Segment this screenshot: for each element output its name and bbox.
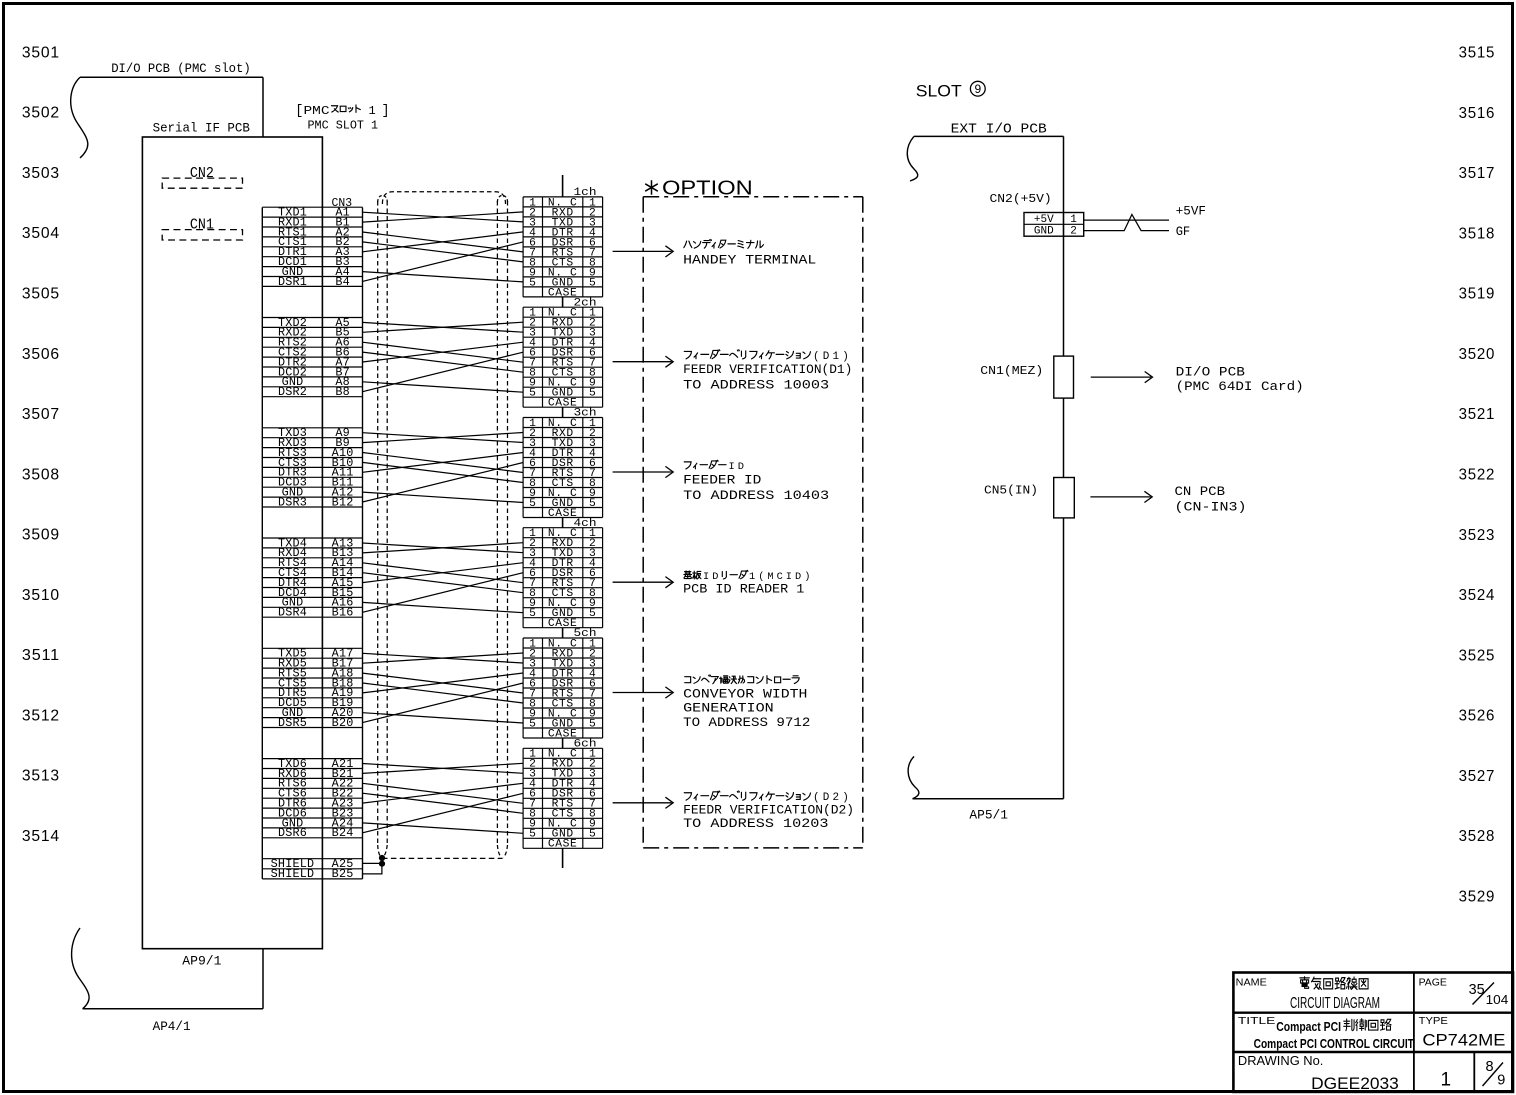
svg-text:DGEE2033: DGEE2033 bbox=[1311, 1074, 1399, 1093]
svg-text:9: 9 bbox=[974, 82, 981, 96]
svg-text:1: 1 bbox=[1070, 214, 1077, 226]
svg-text:DSR5: DSR5 bbox=[278, 716, 307, 730]
arrow 4ch to PCB ID READER 1 bbox=[613, 581, 672, 583]
DI/O PCB (PMC slot) board outline bbox=[71, 77, 263, 1009]
arrow 6ch to FEEDR VERIFICATION(D2) bbox=[613, 802, 672, 804]
svg-text:(PMC 64DI Card): (PMC 64DI Card) bbox=[1176, 380, 1304, 394]
svg-text:B24: B24 bbox=[332, 826, 354, 840]
svg-text:CN5(IN): CN5(IN) bbox=[984, 484, 1038, 498]
svg-text:104: 104 bbox=[1486, 992, 1509, 1007]
wire RXD2 to 2ch pin 2 bbox=[363, 322, 524, 332]
arrow 1ch to HANDEY TERMINAL bbox=[613, 250, 672, 252]
arrow 5ch to CONVEYOR WIDTH GENERATION bbox=[613, 692, 672, 694]
svg-text:3518: 3518 bbox=[1459, 225, 1496, 242]
svg-text:B16: B16 bbox=[332, 606, 354, 620]
svg-text:3525: 3525 bbox=[1459, 647, 1496, 664]
svg-text:3515: 3515 bbox=[1459, 45, 1496, 62]
cable shield junction dots bbox=[379, 855, 385, 861]
connector 4ch DSUB pin block bbox=[523, 528, 603, 630]
connector CN5(IN) box bbox=[1054, 478, 1075, 518]
svg-text:3503: 3503 bbox=[22, 165, 60, 182]
arrow 3ch to FEEDER ID bbox=[613, 471, 672, 473]
connector CN3 body (left pin table) bbox=[262, 207, 362, 879]
svg-text:CN PCB: CN PCB bbox=[1175, 485, 1226, 499]
wire GND to 4ch pin 5 bbox=[363, 602, 524, 612]
wire RXD3 to 3ch pin 2 bbox=[363, 433, 524, 443]
svg-text:EXT I/O PCB: EXT I/O PCB bbox=[951, 122, 1047, 137]
wire +5V to +5VF bbox=[1084, 219, 1169, 221]
connector 3ch DSUB pin block bbox=[523, 418, 603, 520]
wire DSR2 to 2ch pin 6 bbox=[363, 352, 524, 392]
svg-text:CN1(MEZ): CN1(MEZ) bbox=[980, 364, 1043, 378]
connector stub below 6ch bbox=[562, 848, 564, 868]
wire RTS3 to 3ch pin 7 bbox=[363, 453, 524, 473]
OPTION title with asterisk bbox=[645, 178, 753, 200]
label SLOT 9 (circled) bbox=[916, 81, 985, 100]
svg-text:3528: 3528 bbox=[1459, 828, 1496, 845]
wire DSR3 to 3ch pin 6 bbox=[363, 463, 524, 503]
wire CTS6 to 6ch pin 8 bbox=[363, 793, 524, 813]
svg-text:3520: 3520 bbox=[1459, 346, 1496, 363]
OPTION boundary box (chain line) bbox=[643, 197, 863, 848]
wire RTS1 to 1ch pin 7 bbox=[363, 232, 524, 252]
svg-text:GENERATION: GENERATION bbox=[683, 701, 774, 716]
svg-text:3505: 3505 bbox=[22, 286, 60, 303]
svg-text:OPTION: OPTION bbox=[662, 178, 753, 200]
connector CN1(MEZ) box bbox=[1054, 356, 1074, 398]
svg-text:3526: 3526 bbox=[1459, 708, 1496, 725]
wire CTS2 to 2ch pin 8 bbox=[363, 352, 524, 372]
label HANDEY TERMINAL (Japanese + English) bbox=[683, 239, 816, 267]
svg-text:3524: 3524 bbox=[1459, 587, 1496, 604]
svg-text:NAME: NAME bbox=[1236, 976, 1267, 988]
connector CN3 group 5 rows (pins A17-B20) bbox=[262, 647, 362, 730]
connector CN3 group 1 rows (pins A1-B4) bbox=[262, 206, 362, 289]
label FEEDER ID bbox=[683, 460, 829, 503]
wire RXD6 to 6ch pin 2 bbox=[363, 763, 524, 773]
svg-text:5: 5 bbox=[589, 608, 596, 620]
wire SHIELD B25 to shield bbox=[363, 864, 382, 874]
svg-text:TO ADDRESS 9712: TO ADDRESS 9712 bbox=[683, 715, 810, 730]
wire CTS5 to 5ch pin 8 bbox=[363, 683, 524, 703]
svg-text:3507: 3507 bbox=[22, 406, 60, 423]
arrow CN5 to CN PCB bbox=[1090, 496, 1150, 498]
svg-text:): ) bbox=[804, 571, 810, 583]
title block frame bbox=[1233, 973, 1513, 1093]
connector 2ch stub and label bbox=[562, 297, 564, 307]
svg-text:3506: 3506 bbox=[22, 346, 60, 363]
wire RTS5 to 5ch pin 7 bbox=[363, 673, 524, 693]
svg-text:5: 5 bbox=[529, 498, 536, 510]
svg-text:1: 1 bbox=[833, 351, 840, 363]
wire DTR3 to 3ch pin 4 bbox=[363, 453, 524, 473]
svg-text:Compact PCI: Compact PCI bbox=[1276, 1019, 1341, 1034]
svg-text:DSR3: DSR3 bbox=[278, 495, 307, 509]
title block sheet number cells bbox=[1441, 1059, 1506, 1090]
svg-text:1: 1 bbox=[369, 104, 376, 118]
svg-text:CP742ME: CP742ME bbox=[1422, 1031, 1505, 1050]
svg-text:I: I bbox=[728, 461, 734, 473]
connector CN3 group 6 rows (pins A21-B24) bbox=[262, 757, 362, 840]
svg-text:B4: B4 bbox=[335, 275, 350, 289]
EXT I/O PCB board outline bbox=[907, 136, 1063, 798]
svg-text:D: D bbox=[738, 461, 744, 473]
svg-text:DSR4: DSR4 bbox=[278, 606, 307, 620]
wire GND to 1ch pin 5 bbox=[363, 272, 524, 282]
wire CTS3 to 3ch pin 8 bbox=[363, 462, 524, 482]
connector CN1 (dashed) bbox=[162, 230, 242, 240]
svg-text:(: ( bbox=[813, 351, 820, 363]
wire shield junction vertical bbox=[381, 858, 383, 864]
connector 6ch DSUB pin block bbox=[523, 748, 603, 850]
connector 5ch DSUB pin block bbox=[523, 638, 603, 740]
wire DTR1 to 1ch pin 4 bbox=[363, 232, 524, 252]
svg-text:B12: B12 bbox=[332, 495, 354, 509]
svg-text:CIRCUIT DIAGRAM: CIRCUIT DIAGRAM bbox=[1290, 995, 1380, 1012]
svg-text:CN1: CN1 bbox=[190, 217, 214, 233]
svg-text:PAGE: PAGE bbox=[1419, 976, 1447, 988]
svg-text:3519: 3519 bbox=[1459, 286, 1496, 303]
svg-text:]: ] bbox=[382, 104, 390, 119]
label CONVEYOR WIDTH GENERATION bbox=[683, 675, 810, 730]
svg-text:3513: 3513 bbox=[22, 768, 60, 785]
svg-text:5: 5 bbox=[589, 388, 596, 400]
wire RXD4 to 4ch pin 2 bbox=[363, 543, 524, 553]
svg-text:SLOT: SLOT bbox=[916, 81, 962, 100]
svg-text:(CN-IN3): (CN-IN3) bbox=[1175, 501, 1247, 515]
svg-text:CONVEYOR WIDTH: CONVEYOR WIDTH bbox=[683, 687, 807, 702]
svg-text:TYPE: TYPE bbox=[1419, 1015, 1448, 1027]
svg-text:3511: 3511 bbox=[22, 647, 60, 664]
title block TITLE cell bbox=[1238, 1015, 1414, 1051]
svg-text:FEEDER ID: FEEDER ID bbox=[683, 473, 762, 488]
svg-text:AP5/1: AP5/1 bbox=[969, 809, 1008, 823]
wire RTS6 to 6ch pin 7 bbox=[363, 783, 524, 803]
svg-text:DI/O PCB: DI/O PCB bbox=[1176, 365, 1246, 379]
svg-text:3529: 3529 bbox=[1459, 888, 1496, 905]
svg-text:B25: B25 bbox=[332, 867, 354, 881]
svg-text:5: 5 bbox=[589, 277, 596, 289]
svg-text:3522: 3522 bbox=[1459, 467, 1496, 484]
connector CN3 group 4 rows (pins A13-B16) bbox=[262, 536, 362, 619]
svg-text:GF: GF bbox=[1176, 225, 1191, 239]
wire RXD5 to 5ch pin 2 bbox=[363, 653, 524, 663]
connector CN3 group 2 rows (pins A5-B8) bbox=[262, 316, 362, 399]
svg-text:GND: GND bbox=[1034, 226, 1054, 238]
connector 2ch DSUB pin block bbox=[523, 307, 603, 409]
wire DSR6 to 6ch pin 6 bbox=[363, 793, 524, 833]
wire RTS2 to 2ch pin 7 bbox=[363, 342, 524, 362]
wire CTS1 to 1ch pin 8 bbox=[363, 242, 524, 262]
connector 4ch stub and label bbox=[562, 518, 564, 528]
svg-text:TO ADDRESS 10403: TO ADDRESS 10403 bbox=[683, 488, 829, 503]
connector 3ch stub and label bbox=[562, 407, 564, 417]
svg-text:): ) bbox=[842, 351, 849, 363]
svg-text:5: 5 bbox=[529, 718, 536, 730]
svg-text:5: 5 bbox=[589, 718, 596, 730]
svg-text:AP9/1: AP9/1 bbox=[182, 954, 221, 968]
svg-text:CN2: CN2 bbox=[190, 166, 214, 182]
title block DRAWING No cell bbox=[1238, 1053, 1399, 1093]
svg-text:2: 2 bbox=[1070, 226, 1077, 238]
svg-text:DSR6: DSR6 bbox=[278, 826, 307, 840]
svg-text:5: 5 bbox=[529, 829, 536, 841]
wire RXD1 to 1ch pin 2 bbox=[363, 212, 524, 222]
title block NAME cell bbox=[1236, 976, 1380, 1012]
wire GND to 3ch pin 5 bbox=[363, 492, 524, 502]
wire TXD4 to 4ch pin 3 bbox=[363, 543, 524, 553]
label FEEDR VERIFICATION(D2) bbox=[683, 791, 854, 831]
zone reference numbers left column bbox=[22, 44, 60, 845]
svg-text:Serial IF PCB: Serial IF PCB bbox=[153, 122, 251, 136]
svg-text:+5V: +5V bbox=[1034, 214, 1054, 226]
svg-text:5: 5 bbox=[589, 498, 596, 510]
svg-text:9: 9 bbox=[1497, 1073, 1505, 1089]
wire DSR1 to 1ch pin 6 bbox=[363, 242, 524, 282]
svg-text:3508: 3508 bbox=[22, 466, 60, 483]
svg-text:B20: B20 bbox=[332, 716, 354, 730]
svg-text:3523: 3523 bbox=[1459, 527, 1496, 544]
svg-text:8: 8 bbox=[1486, 1059, 1494, 1075]
wire CTS4 to 4ch pin 8 bbox=[363, 573, 524, 593]
wire RTS4 to 4ch pin 7 bbox=[363, 563, 524, 583]
svg-text:1: 1 bbox=[1441, 1069, 1452, 1090]
svg-text:Compact PCI CONTROL CIRCUIT: Compact PCI CONTROL CIRCUIT bbox=[1254, 1036, 1414, 1051]
wire GND to 2ch pin 5 bbox=[363, 382, 524, 392]
svg-text:3510: 3510 bbox=[22, 587, 60, 604]
wire DTR6 to 6ch pin 4 bbox=[363, 783, 524, 803]
svg-text:3521: 3521 bbox=[1459, 406, 1496, 423]
wire TXD5 to 5ch pin 3 bbox=[363, 653, 524, 663]
svg-text:3501: 3501 bbox=[22, 44, 60, 61]
svg-text:FEEDR VERIFICATION(D1): FEEDR VERIFICATION(D1) bbox=[683, 362, 852, 377]
title block PAGE cell bbox=[1419, 976, 1509, 1007]
connector CN2 pin table bbox=[1024, 213, 1084, 238]
svg-text:D: D bbox=[823, 351, 830, 363]
svg-text:TO ADDRESS 10003: TO ADDRESS 10003 bbox=[683, 377, 829, 392]
label [PMC slot 1] (Japanese) bbox=[295, 104, 389, 119]
label DI/O PCB (PMC 64DI Card) bbox=[1176, 365, 1304, 394]
connector 1ch DSUB pin block bbox=[523, 197, 603, 299]
wire DTR5 to 5ch pin 4 bbox=[363, 673, 524, 693]
wire TXD1 to 1ch pin 3 bbox=[363, 212, 524, 222]
svg-text:3509: 3509 bbox=[22, 527, 60, 544]
connector CN3 group 3 rows (pins A9-B12) bbox=[262, 426, 362, 509]
wire DTR2 to 2ch pin 4 bbox=[363, 342, 524, 362]
svg-text:3502: 3502 bbox=[22, 105, 60, 122]
svg-text:5: 5 bbox=[529, 388, 536, 400]
connector CN3 SHIELD rows (A25/B25) bbox=[262, 857, 362, 881]
svg-text:HANDEY TERMINAL: HANDEY TERMINAL bbox=[683, 253, 816, 268]
wire SHIELD A25 to shield bbox=[363, 862, 383, 864]
connector 5ch stub and label bbox=[562, 628, 564, 638]
arrow 2ch to FEEDR VERIFICATION(D1) bbox=[613, 361, 672, 363]
Serial IF PCB board outline bbox=[142, 137, 322, 949]
svg-text:3514: 3514 bbox=[22, 828, 60, 845]
svg-text:3516: 3516 bbox=[1459, 105, 1496, 122]
arrow CN1 to DI/O PCB bbox=[1091, 376, 1151, 378]
svg-text:[: [ bbox=[295, 104, 303, 119]
wire GND to GF with break symbol bbox=[1084, 215, 1169, 231]
svg-text:3527: 3527 bbox=[1459, 768, 1496, 785]
wire TXD2 to 2ch pin 3 bbox=[363, 322, 524, 332]
svg-text:SHIELD: SHIELD bbox=[271, 867, 315, 881]
wire DSR4 to 4ch pin 6 bbox=[363, 573, 524, 613]
title block TYPE cell bbox=[1419, 1015, 1506, 1050]
cable sheath dashed lines bbox=[378, 192, 508, 859]
connector 6ch stub and label bbox=[562, 738, 564, 748]
svg-text:5: 5 bbox=[529, 608, 536, 620]
wire TXD6 to 6ch pin 3 bbox=[363, 764, 524, 774]
label PCB ID READER 1 bbox=[683, 570, 810, 596]
wire TXD3 to 3ch pin 3 bbox=[363, 433, 524, 443]
svg-text:PMC SLOT 1: PMC SLOT 1 bbox=[308, 119, 379, 133]
label CN PCB (CN-IN3) bbox=[1175, 485, 1247, 515]
svg-text:PMC: PMC bbox=[304, 104, 330, 118]
svg-text:B8: B8 bbox=[335, 385, 350, 399]
svg-text:+5VF: +5VF bbox=[1176, 204, 1206, 218]
wire DTR4 to 4ch pin 4 bbox=[363, 563, 524, 583]
label FEEDR VERIFICATION(D1) bbox=[683, 350, 852, 393]
svg-text:DRAWING No.: DRAWING No. bbox=[1238, 1053, 1324, 1068]
connector CN2 (dashed) bbox=[162, 178, 242, 188]
svg-text:3504: 3504 bbox=[22, 225, 60, 242]
svg-text:3517: 3517 bbox=[1459, 165, 1496, 182]
wire DSR5 to 5ch pin 6 bbox=[363, 683, 524, 723]
wire GND to 5ch pin 5 bbox=[363, 713, 524, 723]
svg-text:PCB ID READER 1: PCB ID READER 1 bbox=[683, 582, 804, 597]
connector 1ch stub and label bbox=[562, 175, 564, 197]
svg-text:DI/O PCB (PMC slot): DI/O PCB (PMC slot) bbox=[111, 62, 251, 76]
svg-text:FEEDR VERIFICATION(D2): FEEDR VERIFICATION(D2) bbox=[683, 802, 854, 817]
svg-text:5: 5 bbox=[529, 277, 536, 289]
wire GND to 6ch pin 5 bbox=[363, 823, 524, 833]
svg-text:DSR1: DSR1 bbox=[278, 275, 307, 289]
svg-text:AP4/1: AP4/1 bbox=[153, 1020, 191, 1034]
zone reference numbers right column bbox=[1459, 45, 1496, 906]
svg-text:5: 5 bbox=[589, 829, 596, 841]
svg-text:3512: 3512 bbox=[22, 707, 60, 724]
svg-text:TO ADDRESS 10203: TO ADDRESS 10203 bbox=[683, 816, 828, 831]
svg-text:DSR2: DSR2 bbox=[278, 385, 307, 399]
svg-text:CN2(+5V): CN2(+5V) bbox=[990, 192, 1052, 206]
svg-text:TITLE: TITLE bbox=[1238, 1015, 1275, 1027]
